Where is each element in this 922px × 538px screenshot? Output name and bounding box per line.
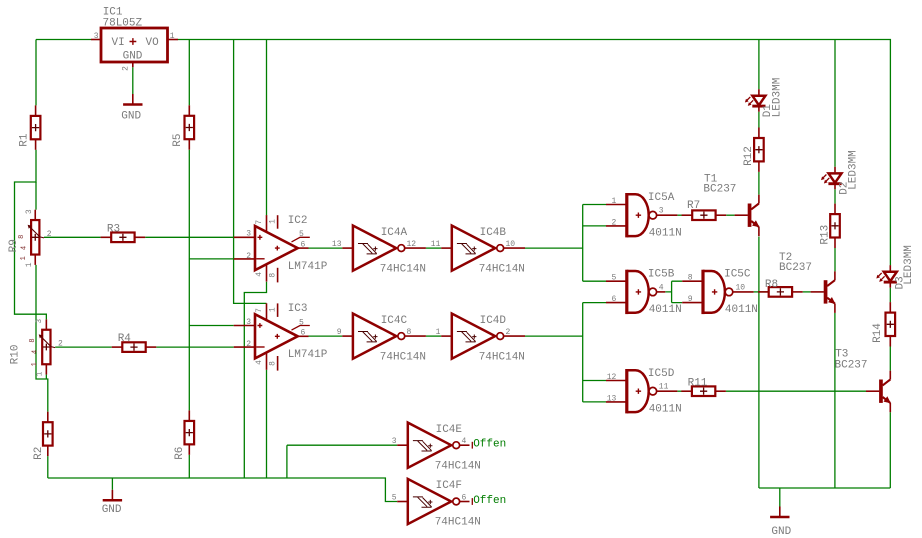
wire T1 emitter down to bottom-right bus	[758, 237, 760, 488]
wire IC5D output to R11	[677, 390, 692, 392]
wire T3 emitter down to bottom-right bus	[889, 412, 891, 488]
wire tap to IC3 pin 3	[189, 325, 233, 327]
wire R12 to T1 collector	[758, 172, 760, 195]
wire T2 emitter down to bottom-right bus	[834, 313, 836, 488]
wire GND tap bottom-right	[779, 488, 781, 507]
svg-text:IC3: IC3	[288, 303, 308, 315]
wire IC4B output to NAND bus 1	[525, 247, 583, 249]
wire ground bus bottom-left with jog to IC4F input	[48, 478, 397, 502]
wire bus1 to IC5B pin 5	[583, 280, 606, 282]
wire D1 cathode to R12	[758, 112, 760, 128]
resistor R11	[681, 378, 726, 397]
svg-text:Offen: Offen	[473, 438, 506, 450]
wire rail branch to IC3 pin 7	[234, 40, 267, 304]
transistor T3 BC237	[835, 349, 891, 413]
svg-text:9: 9	[688, 295, 693, 304]
svg-text:9: 9	[337, 328, 342, 337]
svg-text:11: 11	[431, 240, 441, 249]
svg-text:5: 5	[611, 274, 616, 283]
svg-text:8: 8	[29, 338, 37, 342]
svg-text:R12: R12	[743, 146, 755, 166]
resistor R3	[101, 224, 146, 243]
svg-text:IC1: IC1	[103, 7, 123, 19]
svg-text:R9: R9	[8, 239, 20, 252]
svg-text:IC4C: IC4C	[381, 315, 408, 327]
transistor T1 BC237	[703, 173, 759, 236]
svg-text:4: 4	[659, 283, 664, 292]
svg-text:3: 3	[94, 32, 99, 41]
wire tap to IC2 pin 2	[189, 258, 233, 260]
inverter IC4B 74HC14N	[431, 226, 525, 276]
wire R13 to T2 collector	[834, 248, 836, 271]
svg-text:1: 1	[25, 262, 34, 267]
svg-text:8: 8	[407, 328, 412, 337]
voltage regulator IC1 78L05Z	[91, 7, 178, 71]
NAND gate IC5D 4011N	[606, 368, 682, 416]
resistor R1	[19, 105, 41, 149]
svg-text:BC237: BC237	[835, 360, 868, 372]
svg-text:Offen: Offen	[473, 495, 506, 507]
svg-text:IC5D: IC5D	[648, 368, 675, 380]
NAND gate IC5C 4011N	[682, 269, 758, 317]
svg-text:R5: R5	[172, 133, 184, 146]
svg-text:4: 4	[20, 246, 28, 250]
svg-text:1: 1	[436, 328, 441, 337]
svg-text:IC5C: IC5C	[724, 269, 751, 281]
wire bus1 to IC5A pin 2	[583, 225, 606, 227]
inverter IC4E 74HC14N	[392, 423, 481, 473]
wire R11 to T3 base	[726, 390, 866, 392]
svg-text:2: 2	[47, 230, 52, 239]
svg-text:IC5A: IC5A	[648, 192, 675, 204]
svg-text:BC237: BC237	[779, 262, 812, 274]
transistor T2 BC237	[779, 252, 836, 313]
NAND gate IC5B 4011N	[606, 269, 682, 317]
svg-text:R4: R4	[118, 333, 132, 345]
LED D3 LED3MM	[876, 245, 915, 289]
wire IC3 output to IC4C input	[309, 335, 343, 337]
svg-text:LED3MM: LED3MM	[848, 150, 860, 190]
svg-text:6: 6	[462, 494, 467, 503]
wire IC1 pin 2 to GND	[132, 67, 134, 94]
wire rail branch to IC2 pin 7	[266, 40, 268, 216]
svg-text:VI: VI	[112, 37, 125, 49]
svg-text:IC5B: IC5B	[648, 269, 675, 281]
svg-text:3: 3	[35, 319, 44, 324]
svg-text:R14: R14	[872, 323, 884, 343]
resistor R2	[33, 412, 53, 460]
wire R7 to T1 base	[726, 214, 734, 216]
wire R6 bottom to ground bus	[188, 455, 190, 478]
svg-text:8: 8	[688, 274, 693, 283]
wire IC4D output to NAND bus 2	[525, 335, 583, 337]
trimmer potentiometer R9	[8, 209, 52, 267]
svg-text:GND: GND	[121, 111, 141, 123]
svg-text:VO: VO	[146, 37, 160, 49]
svg-text:IC4F: IC4F	[436, 480, 462, 492]
svg-text:IC4D: IC4D	[480, 315, 507, 327]
resistor R12	[743, 128, 764, 172]
inverter IC4C 74HC14N	[337, 314, 426, 364]
wire rail to R5	[188, 40, 190, 106]
wire +V rail left segment	[36, 39, 91, 41]
wire R14 to T3 collector	[889, 347, 891, 371]
LED D1 LED3MM	[745, 78, 783, 118]
resistor R8	[758, 279, 803, 297]
resistor R14	[872, 302, 895, 346]
svg-text:R10: R10	[9, 344, 21, 364]
svg-text:IC2: IC2	[288, 215, 308, 227]
svg-text:R11: R11	[688, 378, 708, 390]
svg-text:12: 12	[407, 240, 417, 249]
wire NAND bus 1 vertical	[582, 205, 584, 282]
svg-text:2: 2	[121, 66, 130, 71]
wire R1 node down to R9 pin 3	[35, 182, 37, 210]
svg-text:R13: R13	[819, 225, 831, 245]
wire rail to LED D2	[834, 40, 836, 167]
svg-text:6: 6	[611, 295, 616, 304]
inverter IC4A 74HC14N	[332, 226, 426, 276]
wire bus1 to IC5A pin 1	[583, 204, 606, 206]
svg-text:1: 1	[31, 362, 39, 366]
wire R2 bottom to ground bus	[47, 456, 49, 478]
op-amp IC2 LM741P	[234, 215, 328, 282]
svg-text:5: 5	[392, 494, 397, 503]
wire bus2 to IC5B pin 6	[583, 302, 606, 304]
wire IC4A output to IC4B input	[426, 247, 441, 249]
svg-text:2: 2	[506, 328, 511, 337]
svg-text:1: 1	[611, 197, 616, 206]
wire IC3 pin 4 to ground bus	[266, 370, 268, 478]
svg-text:3: 3	[25, 209, 34, 214]
ground symbol bottom-right	[770, 507, 791, 538]
svg-text:LED3MM: LED3MM	[903, 245, 915, 285]
svg-text:LED3MM: LED3MM	[771, 78, 783, 118]
svg-text:11: 11	[659, 383, 669, 392]
wire left bus from rail to R1	[35, 40, 37, 106]
svg-text:10: 10	[736, 283, 746, 292]
svg-text:2: 2	[611, 218, 616, 227]
trimmer potentiometer R10	[9, 319, 63, 377]
svg-text:BC237: BC237	[703, 184, 736, 196]
svg-text:IC4A: IC4A	[381, 227, 408, 239]
LED D2 LED3MM	[821, 150, 860, 195]
wire node to IC4E input	[287, 445, 397, 478]
svg-text:IC4E: IC4E	[436, 424, 463, 436]
svg-text:8: 8	[18, 235, 26, 239]
svg-text:R6: R6	[174, 447, 186, 460]
wire R9 pin1 down, jog to R2	[36, 265, 48, 412]
inverter IC4D 74HC14N	[436, 314, 525, 364]
svg-text:78L05Z: 78L05Z	[103, 18, 143, 30]
wire R8 to T2 base	[803, 291, 811, 293]
svg-text:13: 13	[607, 394, 617, 403]
svg-text:1: 1	[36, 371, 45, 376]
NAND gate IC5A 4011N	[606, 192, 682, 240]
wire IC5A output to R7	[677, 214, 692, 216]
svg-text:IC4B: IC4B	[480, 227, 507, 239]
wire R10 wiper to R4	[55, 346, 111, 348]
wire bus2 to IC5D pin 12	[583, 380, 606, 382]
inverter IC4F 74HC14N	[392, 479, 481, 529]
svg-text:R8: R8	[765, 279, 778, 291]
wire GND tap bottom-left	[111, 478, 113, 490]
svg-text:4: 4	[31, 350, 39, 354]
resistor R7	[682, 200, 727, 220]
wire IC2 pin 4 to ground bus	[244, 282, 266, 478]
wire D3 cathode to R14	[889, 288, 891, 302]
wire R9 wiper to R3	[44, 236, 101, 238]
svg-text:4: 4	[462, 437, 467, 446]
wire IC2 output to IC4A input	[309, 247, 343, 249]
wire R1 bottom to R10 pin3 detour	[15, 150, 47, 320]
wire bottom-right ground bus	[759, 487, 890, 489]
svg-text:GND: GND	[123, 51, 143, 63]
svg-text:R1: R1	[19, 133, 31, 147]
svg-text:GND: GND	[771, 526, 791, 538]
wire R3 to IC2 pin 3	[145, 236, 234, 238]
wire R10 pin1 to jog	[45, 375, 47, 379]
svg-text:10: 10	[506, 240, 516, 249]
resistor R5	[172, 105, 194, 149]
ground symbol below IC1	[121, 94, 142, 123]
svg-text:2: 2	[58, 340, 63, 349]
wire D2 cathode to R13	[834, 189, 836, 203]
resistor R4	[112, 333, 157, 352]
svg-text:GND: GND	[102, 504, 122, 516]
svg-text:R7: R7	[687, 200, 700, 212]
wire IC5C output to R8	[754, 291, 769, 293]
svg-text:13: 13	[332, 240, 342, 249]
op-amp IC3 LM741P	[234, 303, 328, 370]
resistor R6	[174, 410, 194, 459]
svg-text:1: 1	[170, 32, 175, 41]
wire +V rail right segment with corner down to D3	[178, 40, 890, 266]
svg-text:R3: R3	[107, 224, 120, 236]
svg-text:12: 12	[607, 373, 617, 382]
wire rail to LED D1	[758, 40, 760, 90]
wire R5 to R6 vertical	[188, 150, 190, 411]
svg-text:R2: R2	[33, 447, 45, 460]
svg-text:3: 3	[659, 207, 664, 216]
svg-text:1: 1	[20, 256, 28, 260]
wire IC4C output to IC4D input	[426, 335, 441, 337]
ground symbol bottom-left	[102, 490, 122, 516]
svg-text:3: 3	[392, 437, 397, 446]
wire bus2 to IC5D pin 13	[583, 401, 606, 403]
resistor R13	[819, 204, 840, 248]
wire IC5B output loop to IC5C inputs	[665, 281, 682, 302]
wire NAND bus 2 vertical	[582, 303, 584, 402]
wire R4 to IC3 pin 2	[156, 346, 233, 348]
